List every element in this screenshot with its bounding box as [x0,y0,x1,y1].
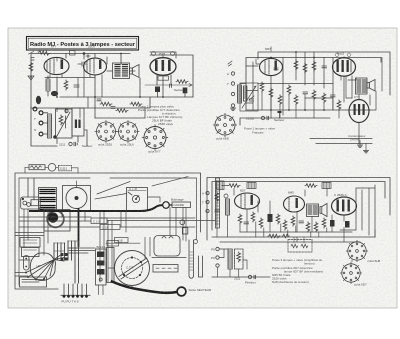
socket box top [63,186,91,212]
capacitor C21 [244,222,249,224]
wire BR bottom bus [212,232,375,242]
wire mid with arrow [145,84,192,87]
terminal block right [153,265,178,273]
capacitor C4 [74,85,79,87]
resistor R20 top [228,184,240,188]
tube V5 25L6 output [333,58,356,76]
speaker SP1 [130,65,140,78]
power transformer block [39,188,57,211]
capacitor C11b [274,68,278,70]
capacitor C14 [278,111,282,118]
wires mid lower [100,208,195,242]
wire feeds to fuse box [28,178,34,200]
wire top bus TL [31,54,193,109]
coil frame box TR [240,83,258,111]
resistor R2 [64,80,68,90]
wires left lower [15,211,48,261]
speaker SP3 [320,204,327,217]
component box above tubes [70,51,76,56]
bottom left box [20,277,47,287]
resistor R13 [287,85,291,95]
resistor R1 grid [38,50,50,55]
wire TR verticals [253,52,370,144]
variable capacitor CV1 [249,96,254,101]
resistor R23 [238,214,242,224]
socket culot 25Z6 [95,120,117,146]
wire PU links [212,249,270,277]
resistor R14 [294,95,298,105]
resistor R5 [130,102,142,106]
tube socket top view [66,181,87,209]
ground G1 [357,145,362,147]
resistor R29 [306,222,310,232]
condenser box S2 [72,108,84,136]
switch box S1 [53,109,72,139]
tube V3 25Z6 rectifier [150,58,176,76]
autotransformer L2 [43,113,52,138]
resistor tag strip [54,241,79,283]
wire TR top bus [246,52,390,110]
input jacks BR [202,191,209,212]
resistor R31 [322,218,326,228]
resistor R22 left [215,192,219,202]
note text block TL [138,105,182,127]
coil L8 left [226,199,230,215]
resistor R21 top [305,184,317,188]
line filter dashed box [59,165,72,171]
note text block BR [272,258,323,284]
wire BR top frame [207,178,390,241]
tube V4 6M7 [260,58,283,75]
chassis border outer [15,173,201,289]
line filter capacitor circle [48,164,56,172]
socket culot 6Y7 [142,125,168,154]
PU jacks [211,247,219,267]
line filter resistor box top [29,165,45,170]
bottom row fuse text [59,142,92,148]
wire to border [15,273,28,277]
coil L1 [46,79,50,96]
electrolytic C8 under V3 [155,87,160,98]
resistor R17 [337,100,341,110]
side bar lower second [199,256,203,277]
capacitor C13 [331,95,336,97]
capacitor C3 electrolytic [36,96,41,104]
resistor R11 [269,88,273,98]
pickup coil L9 [228,249,232,269]
speaker SP2 [367,80,375,92]
resistor R30 [314,222,318,232]
capacitor C2 electrolytic [51,91,58,96]
heater box under V3 [158,76,169,80]
resistor R9 hang [312,61,316,71]
fuse row BR [234,275,256,284]
capacitor C20 [215,210,220,212]
wire BR verticals [217,186,344,238]
detector box [235,249,244,269]
wire TR mid links [262,92,339,118]
title box [27,37,139,51]
right frame box [340,185,375,237]
wire power to bottom row [31,108,87,146]
resistor R24 [251,212,255,222]
small box below cadre [182,228,187,234]
junction dots TR [270,51,345,111]
capacitor C11 hang [322,66,327,68]
output transformer T2 [113,63,130,79]
electrolytic C24 [330,220,335,227]
wire fan from speaker [26,254,64,280]
pot circle below cadre [180,220,185,225]
resistor R10 [260,82,264,92]
capacitor C6 [97,99,101,101]
capacitor C22 big [268,214,273,232]
grid cap components above V2 [83,53,95,59]
wire TL extra density [45,52,176,118]
resistor R6 field coil [176,80,188,84]
tube V2 25L6 [84,58,107,75]
socket culot 6E8 [213,113,236,140]
socket culot 6H8 [346,240,380,263]
resistor R32 bottom zigzag [268,234,289,238]
resistor R28 [291,216,295,226]
socket culot 25L6 [117,120,139,146]
electrolytic can left [24,256,30,271]
capacitor C7 [111,107,115,109]
output transformer T3 [356,78,368,94]
fuse holder box left [21,197,41,209]
note condensateur TR [348,134,366,142]
ground G2 [363,151,368,153]
chassis border inner [19,178,197,285]
speaker housing box [152,236,186,258]
wire to sockets [297,230,375,262]
antenna input components left rail [28,52,34,81]
volume pot box [127,187,148,211]
resistor R12 [278,95,282,105]
connector squares left [61,253,68,261]
wire TR mesh lines [240,58,382,111]
resistor R8 hang [303,63,307,73]
wire diagonal to knob [95,177,188,200]
grid cap circle V7 [224,194,228,198]
tube with black anode [47,211,64,228]
gang condenser rear [108,251,150,289]
resistor R3 [100,102,112,106]
coil L6 top [247,183,256,189]
tube box [44,210,70,232]
capacitor C9b [170,84,172,87]
tube V7 6D7 [235,193,260,209]
wire fan terminals [25,272,45,281]
antenna jacks TR [227,61,235,107]
thick cable vertical branch [78,209,80,246]
thick cable harness [30,205,162,211]
coil L5 left hatched [217,181,225,190]
condenser boxes left [20,238,40,257]
wire TR bottom buses [240,110,372,144]
label box long [100,225,120,230]
tube V6 6Y7 second [349,100,369,123]
resistor R26 [276,214,280,224]
mains cable snake [112,282,177,293]
resistor R15 [312,90,316,100]
capacitor C23 [299,221,304,223]
cable grommet ring [163,202,170,209]
resistor R16 [322,93,326,103]
small box left of gang [107,248,115,283]
tube V1 6Y7 [44,57,69,74]
cadre terminal box [172,202,191,208]
wire TL verticals [48,54,171,119]
resistor R4 [116,109,128,113]
wire filter links [25,167,78,173]
wire to cadre box [169,204,172,206]
tuning coil L4 [244,86,247,101]
tuning coil L3 [238,85,242,103]
resistor R7 hang [294,60,298,70]
label box top [107,241,119,247]
tube V8 6M5 [284,196,305,212]
junction dots TL [30,53,164,98]
socket culot 6D7 [340,262,367,286]
resistor R27 [283,220,287,230]
frame antenna side bar upper [216,178,220,228]
bottom fuse row TR [246,116,284,122]
wire under label box [106,242,140,244]
resistor R25 [259,218,263,228]
electrolytic C25 [345,221,350,228]
terminal strip bottom [61,284,90,304]
wires BL verticals [24,208,183,283]
frame antenna side bar lower [189,240,194,278]
wire TR gnd links [360,141,366,151]
label box CV [91,218,107,224]
ground G3 TR coil [230,108,235,110]
wires across lower [69,248,95,253]
coupling capacitor C5 [78,62,86,66]
mains plug [177,287,186,296]
vertical tag board [96,249,107,295]
power jacks P T S [33,107,43,136]
tone control dashed box [288,237,312,252]
capacitor C top V3 [152,52,156,56]
speaker rear blob [30,253,55,280]
grid cap wire V4 [256,47,271,64]
wire TL lower buses [31,97,193,118]
wires BL mid [19,197,216,232]
output transformer T4 [307,204,319,217]
note text TR [244,127,275,135]
tube V9 25Z6 [332,197,357,215]
capacitor C12 [303,92,308,94]
grid caps above V5 [335,53,351,57]
coil L7 top [322,183,331,189]
small circle right [194,240,198,244]
label box small [115,238,129,243]
electrolytic C9 under V3 [183,88,188,98]
